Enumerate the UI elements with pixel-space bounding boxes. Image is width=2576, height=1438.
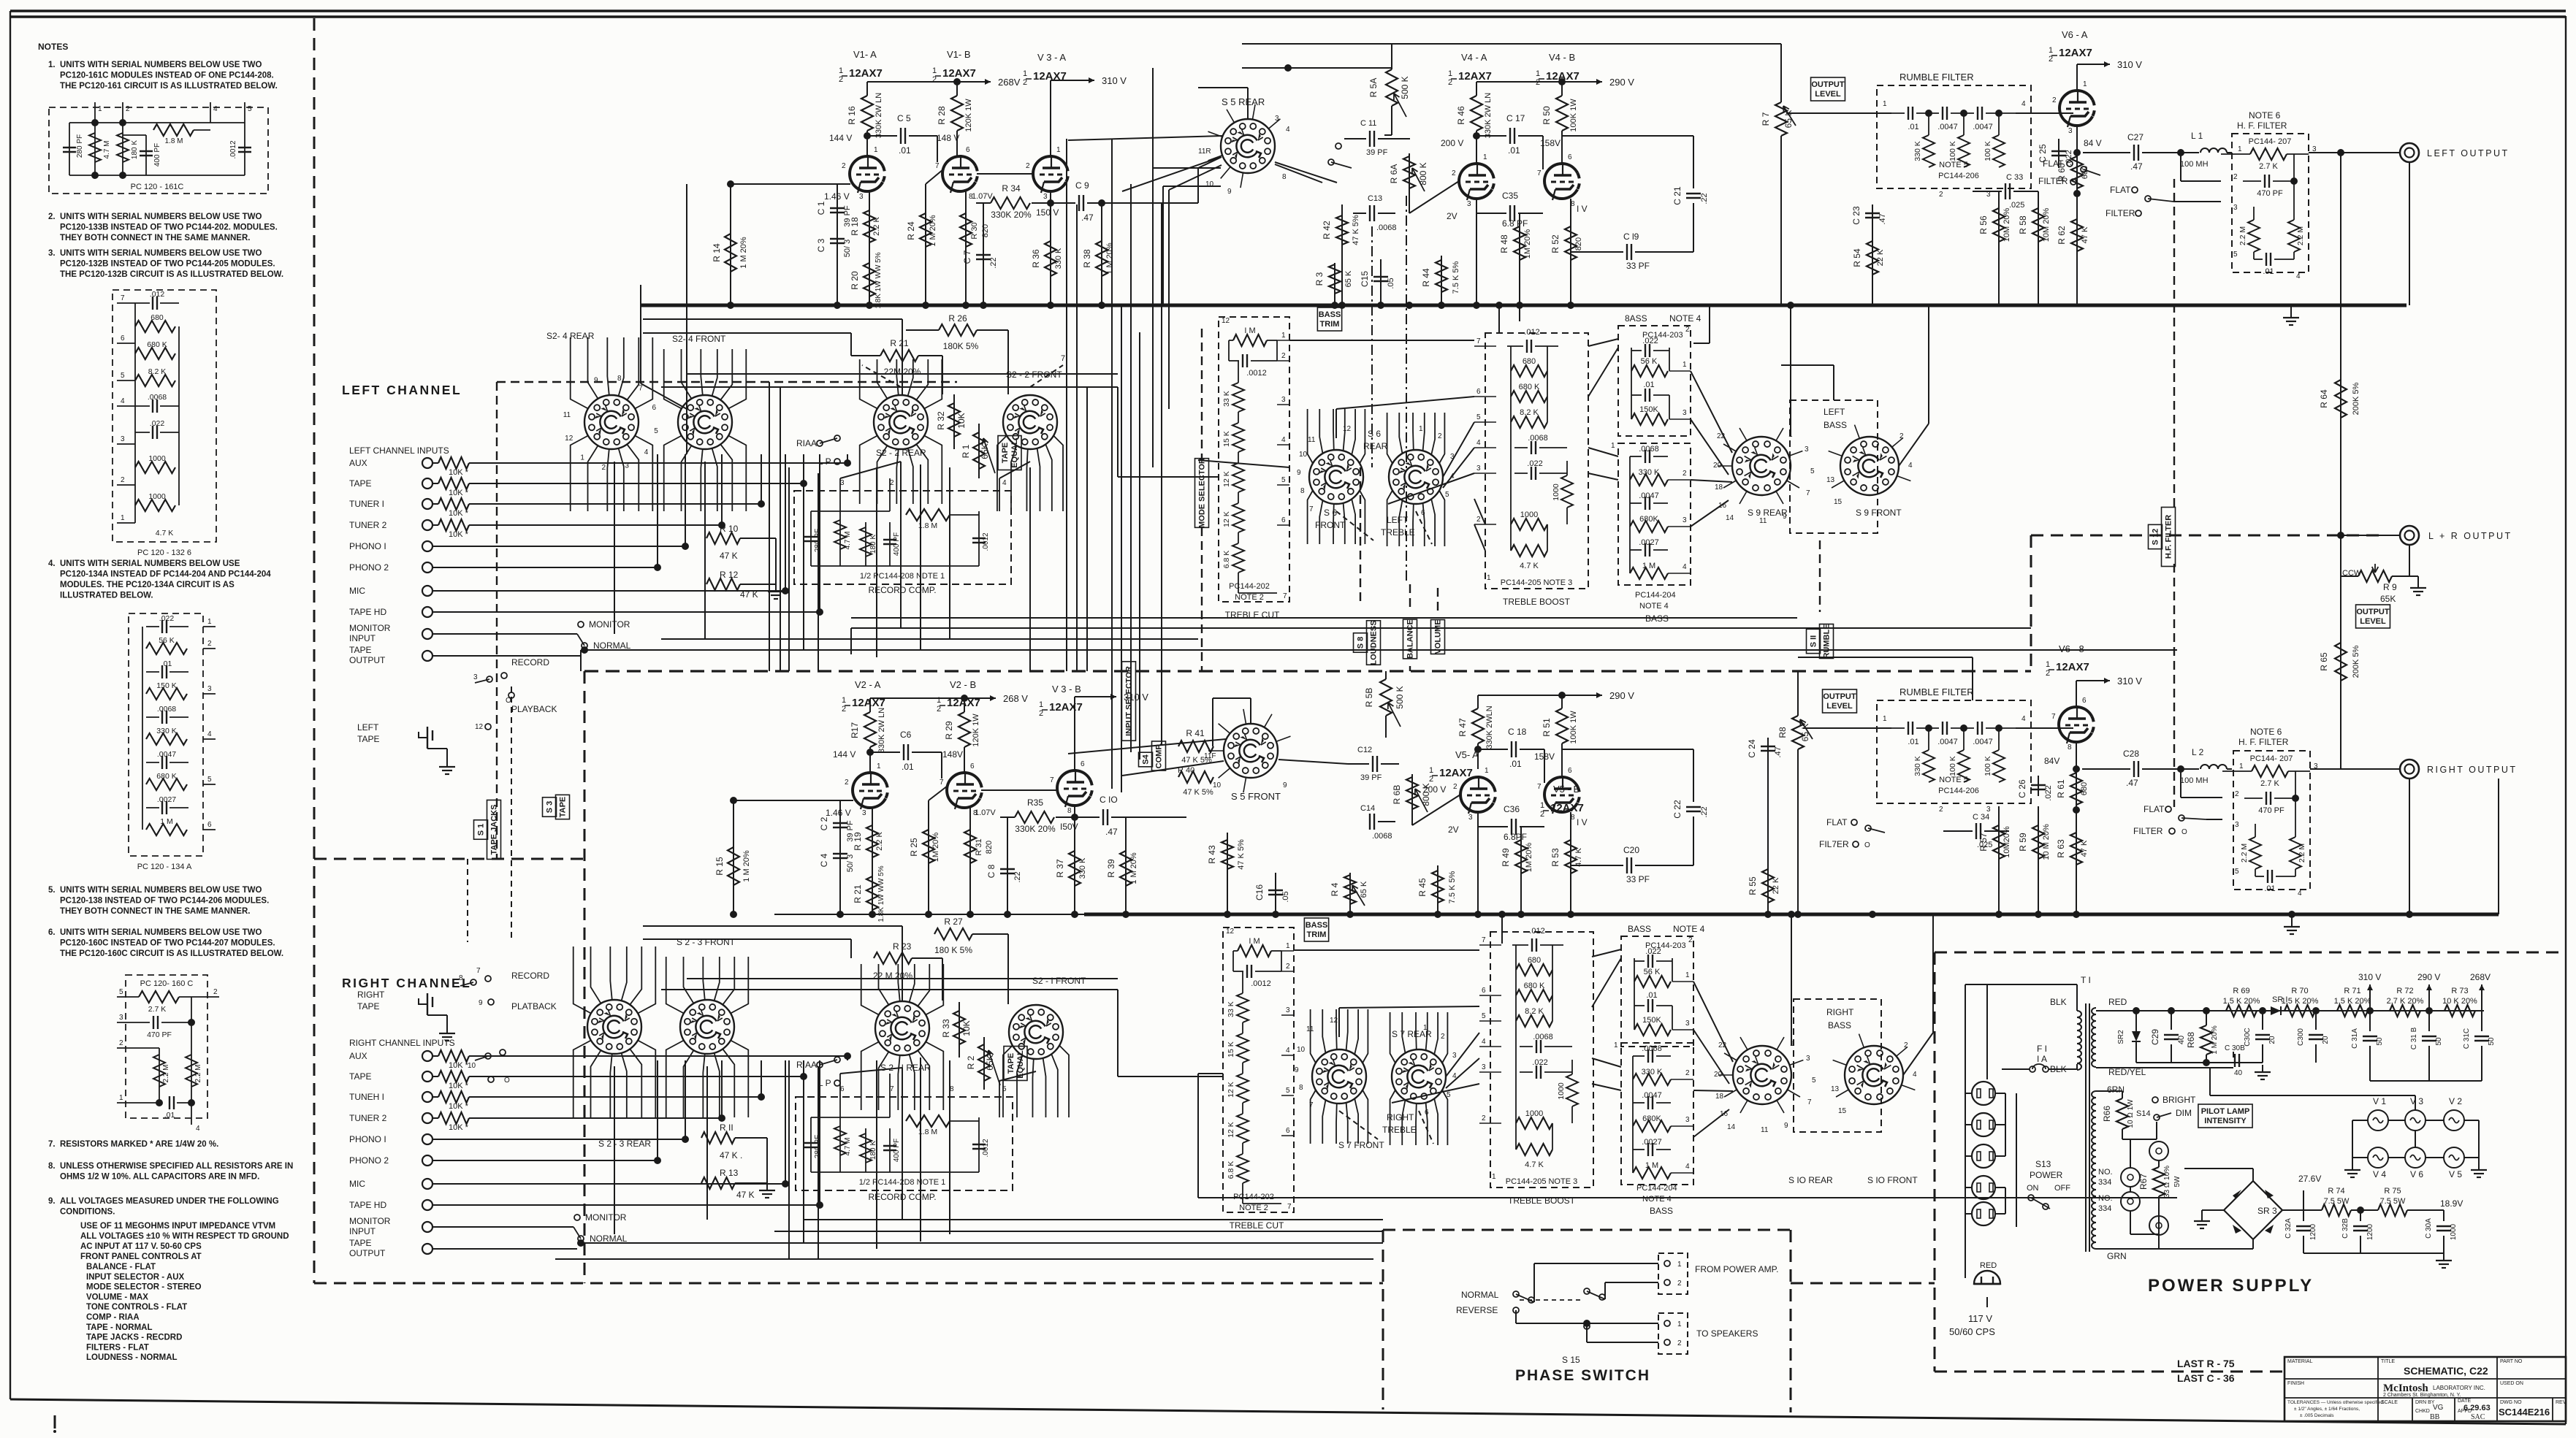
- PILOT LAMP INTENSITY boxed label: [2198, 1104, 2252, 1128]
- svg-text:1: 1: [1448, 69, 1452, 78]
- svg-text:6.8PF: 6.8PF: [1504, 832, 1527, 842]
- HF filter module box right: [2233, 751, 2310, 890]
- bottom-left registration mark: [54, 1415, 56, 1429]
- svg-text:12 K: 12 K: [1227, 1082, 1235, 1098]
- HF filter module box left: [2232, 134, 2309, 272]
- svg-text:47 K: 47 K: [736, 1190, 755, 1200]
- svg-text:C 32A: C 32A: [2285, 1218, 2293, 1239]
- svg-text:S 9 REAR: S 9 REAR: [1748, 508, 1788, 518]
- svg-text:2: 2: [2235, 790, 2239, 798]
- svg-text:S 1: S 1: [477, 824, 486, 836]
- svg-text:FRONT PANEL CONTROLS AT: FRONT PANEL CONTROLS AT: [80, 1252, 202, 1261]
- svg-text:400 PF: 400 PF: [893, 1139, 901, 1162]
- svg-text:C 4: C 4: [819, 853, 829, 867]
- svg-text:2: 2: [213, 988, 218, 996]
- svg-text:2: 2: [1677, 1339, 1682, 1347]
- capacitor C32B 1200: [2360, 1210, 2361, 1221]
- svg-text:10: 10: [468, 1062, 476, 1070]
- svg-text:R 65: R 65: [2319, 652, 2329, 671]
- svg-text:PLAYBACK: PLAYBACK: [511, 704, 557, 714]
- svg-text:200K 5%: 200K 5%: [2352, 382, 2360, 415]
- svg-text:4: 4: [2021, 715, 2026, 723]
- svg-text:.0068: .0068: [1528, 434, 1548, 443]
- svg-text:R 52: R 52: [1550, 234, 1561, 253]
- LEFT OUTPUT jack: [2400, 143, 2419, 162]
- svg-text:± 1/2" Angles, ± 1/64 Fraction: ± 1/2" Angles, ± 1/64 Fractions,: [2294, 1407, 2360, 1412]
- svg-text:1: 1: [1286, 942, 1290, 950]
- resistor 1000 treble boost left: [1511, 519, 1547, 530]
- svg-text:DRN BY: DRN BY: [2415, 1400, 2435, 1405]
- svg-text:VG: VG: [2433, 1404, 2444, 1412]
- capacitor C25 .022: [2058, 139, 2059, 168]
- svg-text:S4: S4: [1142, 754, 1151, 764]
- svg-text:7.5 5W: 7.5 5W: [2324, 1197, 2350, 1206]
- module box PC120-160C: [126, 975, 207, 1118]
- capacitor C20 33PF: [1571, 865, 1623, 866]
- svg-text:12 K: 12 K: [1227, 1122, 1235, 1138]
- svg-text:PC144-205 NOTE 3: PC144-205 NOTE 3: [1501, 578, 1572, 587]
- svg-text:PC 120 - 132 6: PC 120 - 132 6: [137, 548, 191, 557]
- svg-text:MATERIAL: MATERIAL: [2287, 1359, 2313, 1364]
- svg-text:40: 40: [2177, 1036, 2186, 1044]
- svg-text:9: 9: [1295, 1066, 1299, 1074]
- rumble filter module box right: [1877, 700, 2031, 803]
- rotary switch S6 FRONT: [1309, 450, 1363, 504]
- svg-text:1 M 20%: 1 M 20%: [1129, 852, 1138, 884]
- svg-text:8ASS: 8ASS: [1625, 313, 1647, 324]
- svg-text:PART NO: PART NO: [2500, 1359, 2523, 1364]
- svg-text:9: 9: [1297, 469, 1301, 477]
- phase switch poles S15: [1513, 1291, 1519, 1297]
- svg-text:MIC: MIC: [349, 1179, 365, 1189]
- svg-text:4: 4: [2296, 272, 2301, 280]
- resistor R67 33ohm 10% 5W: [2158, 1161, 2160, 1167]
- svg-text:.01: .01: [2264, 884, 2275, 893]
- svg-text:158V: 158V: [1540, 138, 1561, 148]
- svg-text:12: 12: [1222, 317, 1230, 325]
- svg-text:2: 2: [1677, 1280, 1682, 1288]
- svg-text:3: 3: [1685, 1020, 1690, 1028]
- svg-text:V1- A: V1- A: [853, 49, 877, 60]
- potentiometer R2 65K right: [983, 1037, 985, 1090]
- svg-text:R 71: R 71: [2344, 987, 2360, 995]
- svg-text:11: 11: [1308, 436, 1316, 444]
- svg-text:47 K 5%: 47 K 5%: [1352, 215, 1360, 245]
- svg-text:4: 4: [2021, 100, 2026, 108]
- svg-text:7: 7: [1283, 592, 1287, 600]
- svg-text:R 26: R 26: [948, 313, 967, 324]
- svg-text:4.7 M: 4.7 M: [844, 1137, 852, 1155]
- svg-text:RIAA: RIAA: [796, 1060, 817, 1070]
- svg-text:144 V: 144 V: [833, 749, 856, 760]
- svg-text:5: 5: [119, 988, 123, 996]
- inductor L2 100MH: [2177, 765, 2184, 773]
- svg-text:400 PF: 400 PF: [893, 532, 901, 556]
- wire S9 front to left bass: [1833, 365, 1834, 400]
- module box PC120-134A: [129, 613, 203, 856]
- svg-text:RIGHT: RIGHT: [1387, 1112, 1414, 1123]
- svg-text:V2 - A: V2 - A: [855, 679, 881, 690]
- right bus thin lead-in: [774, 914, 1084, 915]
- svg-text:7.5 5W: 7.5 5W: [2380, 1197, 2406, 1206]
- svg-text:11: 11: [563, 411, 571, 419]
- svg-text:R 56: R 56: [1978, 215, 1989, 234]
- svg-text:12AX7: 12AX7: [1439, 767, 1473, 779]
- S7 fan wires: [1311, 1009, 1316, 1063]
- svg-text:13: 13: [1826, 476, 1835, 484]
- svg-text:NOTE 4: NOTE 4: [1673, 924, 1705, 934]
- svg-text:.0068: .0068: [1372, 832, 1392, 841]
- svg-text:2: 2: [1685, 1069, 1690, 1077]
- resistor R42 47K 5%: [1341, 204, 1343, 305]
- svg-text:2.2 M: 2.2 M: [162, 1064, 170, 1082]
- svg-text:PC144-204: PC144-204: [1636, 1184, 1677, 1193]
- resistor 2.2M left HF right: [2255, 824, 2256, 837]
- wires S7 area: [1294, 949, 1479, 951]
- wire V1-B plate to V3-A grid: [977, 173, 1033, 175]
- resistor 4.7K treble boost left: [1511, 545, 1547, 557]
- svg-text:2: 2: [1476, 516, 1481, 524]
- svg-text:C 24: C 24: [1747, 739, 1757, 758]
- svg-text:1M 20%: 1M 20%: [1525, 843, 1533, 873]
- svg-text:680 K: 680 K: [1524, 982, 1545, 990]
- svg-text:180 K 5%: 180 K 5%: [934, 945, 972, 955]
- resistor R21 1.8K 1W WW 5%: [866, 876, 878, 910]
- svg-text:.022: .022: [1527, 459, 1542, 468]
- vertical links S2-1: [850, 939, 852, 958]
- resistor R31 820: [969, 808, 971, 914]
- capacitor C35 6.8PF: [1476, 199, 1477, 213]
- svg-text:PC120-133B INSTEAD OF TWO PC14: PC120-133B INSTEAD OF TWO PC144-202. MOD…: [60, 223, 278, 232]
- capacitor C30A 1000: [2443, 1210, 2444, 1221]
- svg-text:R 47: R 47: [1457, 718, 1468, 737]
- potentiometer R6B 800K: [1411, 774, 1413, 825]
- svg-text:O: O: [506, 697, 511, 705]
- 290V supply arrow right: [1478, 695, 1596, 696]
- svg-text:1000: 1000: [1557, 1082, 1566, 1100]
- svg-text:2: 2: [1452, 169, 1456, 177]
- capacitor C17 .01: [1473, 132, 1480, 139]
- svg-text:R 15: R 15: [715, 857, 725, 876]
- svg-text:DATE: DATE: [2458, 1399, 2471, 1404]
- svg-text:6: 6: [1482, 987, 1486, 995]
- svg-text:.47: .47: [1878, 213, 1887, 224]
- svg-text:.05: .05: [1387, 278, 1395, 288]
- svg-text:R 64: R 64: [2319, 389, 2329, 408]
- OUTPUT LEVEL boxed label left: [1811, 77, 1845, 101]
- dashed horizontal to L+R output: [2031, 535, 2382, 537]
- svg-text:TAPE: TAPE: [1001, 443, 1010, 464]
- svg-text:20: 20: [2268, 1036, 2276, 1044]
- svg-text:FLAT: FLAT: [2110, 185, 2131, 195]
- bass module PC144-204 box left: [1618, 443, 1691, 585]
- svg-text:PC 120- 160 C: PC 120- 160 C: [140, 979, 194, 988]
- module box PC120-132B: [113, 290, 216, 542]
- svg-text:2: 2: [2049, 55, 2053, 64]
- svg-text:8: 8: [2068, 743, 2072, 751]
- svg-text:268V: 268V: [2470, 972, 2491, 982]
- svg-text:TREBLE CUT: TREBLE CUT: [1230, 1220, 1284, 1231]
- svg-text:50/60 CPS: 50/60 CPS: [1949, 1326, 1995, 1337]
- pin stubs bass204 left: [1668, 479, 1691, 481]
- treble boost module box left: [1485, 333, 1588, 589]
- svg-text:RUMBLE FILTER: RUMBLE FILTER: [1899, 72, 1974, 83]
- svg-text:V 3 - A: V 3 - A: [1037, 52, 1066, 63]
- svg-text:S 15: S 15: [1562, 1355, 1580, 1365]
- resistor R34 330K 20%: [1050, 191, 1051, 203]
- capacitor .0012 record comp left: [978, 511, 980, 566]
- svg-text:18.9V: 18.9V: [2440, 1198, 2463, 1209]
- wire monitor run right channel y=1724: [555, 1258, 1373, 1260]
- svg-text:12AX7: 12AX7: [1049, 701, 1083, 714]
- svg-text:2: 2: [1683, 470, 1687, 478]
- svg-text:2.2 M: 2.2 M: [2296, 226, 2305, 245]
- svg-text:.0012: .0012: [1251, 979, 1271, 988]
- svg-text:RESISTORS MARKED * ARE 1/4W 20: RESISTORS MARKED * ARE 1/4W 20 %.: [60, 1140, 218, 1149]
- wire long run monitor to mode area: [850, 628, 852, 654]
- svg-text:H. F. FILTER: H. F. FILTER: [2237, 121, 2287, 131]
- resistor 180K record comp right: [865, 1128, 866, 1172]
- svg-text:MONITOR: MONITOR: [349, 623, 391, 633]
- resistor chain treble cut left: [1238, 361, 1239, 383]
- svg-text:.01: .01: [1908, 738, 1918, 746]
- wire normal run left channel: [584, 649, 2177, 651]
- svg-text:C 1: C 1: [816, 201, 826, 215]
- resistor R75 7.5 5W: [2378, 1204, 2407, 1216]
- svg-text:4: 4: [213, 105, 218, 113]
- svg-text:.47: .47: [1081, 213, 1094, 223]
- ground SR3: [2201, 1214, 2203, 1221]
- svg-text:R 6A: R 6A: [1389, 164, 1399, 184]
- svg-text:10: 10: [1213, 781, 1222, 789]
- svg-text:6: 6: [1568, 153, 1572, 161]
- svg-text:NOTE 6: NOTE 6: [2249, 110, 2281, 121]
- resistor R57 10M 20%: [1998, 806, 2000, 914]
- svg-text:R 55: R 55: [1748, 876, 1758, 895]
- svg-text:3: 3: [862, 809, 866, 817]
- svg-text:R 61: R 61: [2056, 779, 2066, 798]
- dashed vertical to L+R output section: [2030, 535, 2032, 671]
- capacitor 400PF in PC120-161C: [145, 135, 147, 175]
- svg-text:4.7 K: 4.7 K: [156, 529, 174, 538]
- svg-text:2.7 K: 2.7 K: [2260, 779, 2279, 788]
- svg-text:R 49: R 49: [1501, 848, 1511, 867]
- svg-text:65 K: 65 K: [1344, 270, 1353, 287]
- svg-text:.012: .012: [1529, 927, 1544, 936]
- svg-text:PC120-138 INSTEAD OF TWO PC144: PC120-138 INSTEAD OF TWO PC144-206 MODUL…: [60, 897, 269, 906]
- svg-text:R 45: R 45: [1417, 878, 1428, 897]
- resistor R15 1M 20%: [733, 800, 734, 914]
- AC outlets: [1972, 1082, 1995, 1105]
- svg-text:1: 1: [1540, 801, 1544, 810]
- svg-text:R 31: R 31: [975, 838, 983, 855]
- capacitor .0012 treble cut left: [1229, 360, 1239, 362]
- svg-text:15: 15: [1838, 1107, 1847, 1115]
- svg-text:R 50: R 50: [1542, 106, 1552, 125]
- svg-text:C 9: C 9: [1075, 180, 1089, 191]
- resistor R25 1M 20%: [929, 786, 948, 800]
- svg-text:330K 2W LN: 330K 2W LN: [1484, 93, 1493, 138]
- svg-text:3: 3: [2068, 127, 2073, 135]
- resistor 2.7K HF left: [2250, 148, 2287, 160]
- svg-text:330K 20%: 330K 20%: [1015, 824, 1056, 834]
- svg-text:8: 8: [617, 375, 622, 383]
- svg-text:470 PF: 470 PF: [147, 1030, 172, 1039]
- svg-text:12: 12: [565, 435, 573, 443]
- svg-text:8: 8: [459, 974, 463, 982]
- svg-text:330 K: 330 K: [156, 727, 176, 735]
- transformer core: [2085, 1003, 2087, 1252]
- svg-text:R 53: R 53: [1550, 848, 1561, 867]
- potentiometer R6A 800K: [1409, 153, 1410, 204]
- resistor R33 10K: [959, 1002, 960, 1058]
- svg-text:V1- B: V1- B: [947, 49, 971, 60]
- spine wires treble boost right: [1515, 945, 1517, 1150]
- svg-text:1M 20%: 1M 20%: [931, 833, 940, 863]
- svg-text:.01: .01: [1508, 145, 1520, 156]
- svg-text:V2 - B: V2 - B: [950, 679, 976, 690]
- svg-text:LAST R - 75: LAST R - 75: [2177, 1358, 2235, 1369]
- svg-text:± .005 Decimals: ± .005 Decimals: [2300, 1413, 2334, 1418]
- svg-text:310 V: 310 V: [2117, 59, 2142, 70]
- wire C12 to volume pot: [1347, 763, 1349, 765]
- svg-text:AC INPUT AT 117 V. 50-60 CPS: AC INPUT AT 117 V. 50-60 CPS: [80, 1242, 202, 1251]
- resistor R29 120K 1W: [964, 698, 965, 712]
- resistor R74 7.5 5W: [2322, 1204, 2351, 1216]
- svg-text:REV: REV: [2556, 1400, 2567, 1405]
- capacitor C300 20: [2315, 1011, 2317, 1030]
- resistor 2.2M left HF left: [2253, 207, 2255, 220]
- svg-text:290 V: 290 V: [1609, 77, 1634, 88]
- svg-text:10K *: 10K *: [449, 1123, 469, 1132]
- extra verticals S2-1 to boundary: [788, 1060, 790, 1259]
- svg-text:L + R OUTPUT: L + R OUTPUT: [2428, 531, 2512, 541]
- svg-text:6.8 K: 6.8 K: [1222, 551, 1231, 569]
- svg-text:TREBLE BOOST: TREBLE BOOST: [1503, 597, 1571, 607]
- svg-text:15 K: 15 K: [1227, 1041, 1235, 1058]
- capacitor C31C 50: [2481, 1011, 2482, 1031]
- svg-text:148 V: 148 V: [937, 133, 959, 143]
- junction dots mid bus: [1331, 302, 1338, 309]
- S5 switch fan wires: [1241, 172, 1243, 188]
- svg-text:PHONO 2: PHONO 2: [349, 1155, 389, 1166]
- svg-text:4: 4: [121, 397, 125, 405]
- tape jack dashed linkage: [511, 687, 512, 942]
- svg-text:33 PF: 33 PF: [1626, 261, 1650, 271]
- svg-text:C 21: C 21: [1672, 186, 1683, 205]
- svg-text:C 25: C 25: [2038, 144, 2048, 163]
- capacitor C24 .47: [1767, 738, 1769, 760]
- potentiometer R8 65K: [1797, 695, 1799, 716]
- svg-text:S 7 FRONT: S 7 FRONT: [1338, 1140, 1384, 1150]
- svg-text:RIGHT CHANNEL INPUTS: RIGHT CHANNEL INPUTS: [349, 1038, 455, 1048]
- svg-text:RIAA: RIAA: [796, 438, 817, 448]
- svg-text:5: 5: [248, 105, 252, 113]
- svg-text:330K 20%: 330K 20%: [991, 210, 1032, 220]
- svg-text:PC144-203: PC144-203: [1645, 941, 1686, 950]
- svg-text:V6 - 8: V6 - 8: [2059, 643, 2084, 654]
- svg-text:8.: 8.: [48, 1162, 56, 1171]
- svg-text:INPUT: INPUT: [349, 1226, 376, 1236]
- svg-text:S II: S II: [1810, 635, 1818, 648]
- svg-text:LEFT CHANNEL: LEFT CHANNEL: [342, 383, 462, 397]
- svg-text:7.5 K 5%: 7.5 K 5%: [1448, 871, 1457, 903]
- svg-text:CONDITIONS.: CONDITIONS.: [60, 1208, 115, 1217]
- svg-text:7: 7: [1482, 936, 1486, 944]
- wire bass trim vertical: [1498, 305, 1500, 333]
- svg-text:680 K: 680 K: [147, 340, 167, 349]
- svg-text:SC144E216: SC144E216: [2499, 1407, 2550, 1418]
- svg-text:CHKD: CHKD: [2415, 1409, 2430, 1414]
- svg-text:13: 13: [1831, 1085, 1840, 1093]
- capacitor C11 39PF: [1369, 131, 1371, 147]
- capacitor .01 bass203 left: [1631, 394, 1642, 396]
- svg-text:S13: S13: [2035, 1159, 2051, 1169]
- svg-text:1: 1: [1536, 69, 1540, 78]
- svg-text:USED ON: USED ON: [2500, 1381, 2523, 1386]
- resistor R17 330K 2W LN: [869, 698, 871, 712]
- svg-text:C 23: C 23: [1851, 206, 1861, 225]
- svg-text:33 PF: 33 PF: [1626, 874, 1650, 884]
- svg-text:C 8: C 8: [986, 864, 997, 878]
- svg-text:120K 1W: 120K 1W: [972, 714, 980, 747]
- 290V tap arrow: [2428, 984, 2430, 995]
- wire bundle right inputs to S2-3/S2-1: [847, 1056, 848, 1060]
- svg-text:150 K: 150 K: [156, 681, 176, 690]
- svg-text:3: 3: [1683, 516, 1687, 524]
- svg-text:500 K: 500 K: [1395, 686, 1405, 708]
- svg-text:1.: 1.: [48, 61, 56, 69]
- resistor R62 47K: [2076, 190, 2078, 305]
- svg-text:1/2 PC144-208 NDTE 1: 1/2 PC144-208 NDTE 1: [860, 572, 945, 581]
- svg-text:C IO: C IO: [1100, 795, 1118, 805]
- resistor 4.7M in PC120-161C: [94, 123, 96, 175]
- svg-text:3: 3: [859, 193, 864, 201]
- svg-text:680: 680: [1523, 357, 1536, 366]
- svg-text:L P: L P: [818, 1078, 831, 1088]
- svg-text:2: 2: [842, 162, 846, 170]
- 310V supply arrow top: [1051, 80, 1089, 81]
- svg-text:2: 2: [119, 1039, 123, 1047]
- capacitor C23 .47: [1872, 204, 1873, 226]
- triode V4-A: [1459, 164, 1492, 199]
- wires from S5 rear down to mode selector cluster: [1169, 165, 1222, 190]
- resistor R30 820: [965, 191, 967, 305]
- notes/schematic dashed separator: [313, 18, 316, 1283]
- svg-text:1: 1: [1883, 715, 1887, 723]
- triode V5-A: [1460, 777, 1493, 812]
- svg-text:1.5 K 20%: 1.5 K 20%: [2282, 997, 2319, 1006]
- svg-text:.0012: .0012: [229, 140, 237, 158]
- svg-text:TREBLE: TREBLE: [1381, 527, 1415, 538]
- 268V tap arrow: [2481, 984, 2482, 995]
- svg-text:PC 120 - 161C: PC 120 - 161C: [131, 183, 184, 191]
- capacitor C33 .025: [1973, 191, 2002, 192]
- capacitor C5 .01: [864, 132, 871, 139]
- capacitor C27 .47: [2083, 152, 2130, 153]
- svg-text:LABORATORY INC.: LABORATORY INC.: [2433, 1385, 2485, 1391]
- wire from S2 area to V1-A grid: [686, 184, 687, 409]
- svg-text:R 54: R 54: [1852, 248, 1862, 267]
- svg-text:10: 10: [1297, 1046, 1306, 1054]
- svg-text:14: 14: [1726, 514, 1734, 522]
- svg-text:OUTPUT: OUTPUT: [349, 655, 386, 665]
- svg-text:1.8K 1W WW 5%: 1.8K 1W WW 5%: [874, 252, 883, 308]
- resistor 2.2M right in PC120-160C: [191, 1022, 192, 1103]
- capacitor .01 bass203 right: [1634, 1005, 1645, 1006]
- svg-text:I V: I V: [1577, 204, 1588, 214]
- svg-text:10 M 20%: 10 M 20%: [2042, 824, 2051, 860]
